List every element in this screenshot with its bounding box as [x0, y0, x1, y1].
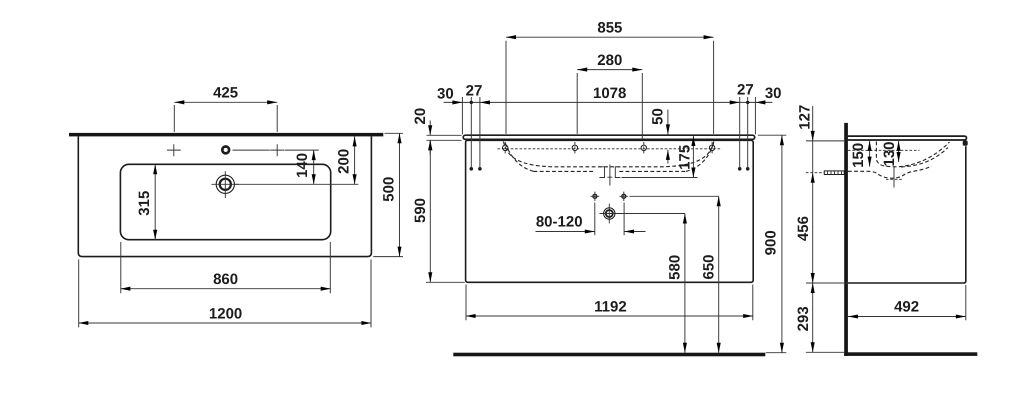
svg-text:30: 30 — [437, 86, 454, 103]
dim 492 — [848, 285, 966, 320]
basin top slab — [463, 135, 755, 139]
siphon centerline — [607, 165, 612, 186]
svg-text:500: 500 — [381, 177, 398, 202]
hidden shell bottom — [534, 170, 687, 172]
svg-text:1200: 1200 — [209, 305, 242, 322]
hidden rim line — [848, 149, 920, 151]
dim 20 — [427, 121, 462, 155]
dim 50 — [667, 110, 669, 164]
svg-text:1192: 1192 — [594, 298, 627, 315]
svg-text:456: 456 — [795, 216, 812, 241]
wall — [844, 123, 848, 356]
wall bar (rear edge) — [69, 133, 383, 137]
hidden shell bottom side — [848, 166, 932, 178]
svg-text:20: 20 — [412, 108, 429, 125]
drain centerline — [234, 183, 358, 185]
floor — [844, 352, 977, 356]
svg-text:27: 27 — [466, 83, 483, 100]
hidden bowl profile — [504, 142, 714, 167]
svg-text:140: 140 — [294, 153, 311, 178]
dim 425 — [174, 102, 277, 132]
svg-text:293: 293 — [795, 306, 812, 331]
svg-text:280: 280 — [597, 52, 622, 69]
wall fixing bolt — [824, 171, 844, 175]
dim 650 — [718, 196, 720, 352]
svg-text:50: 50 — [650, 108, 667, 125]
dim 590 — [426, 140, 465, 282]
cabinet side — [848, 146, 966, 283]
faucet centerline — [233, 149, 319, 151]
svg-text:590: 590 — [412, 198, 429, 223]
screw holes dashed line — [498, 148, 723, 150]
screw 1 — [503, 142, 508, 154]
basin front lip — [963, 140, 968, 145]
faucet hole — [222, 147, 229, 154]
hidden bowl profile side — [876, 142, 949, 167]
dim 200 — [354, 136, 356, 184]
siphon bracket right — [615, 167, 620, 178]
dim 855 — [506, 37, 714, 134]
dim 80-120 — [536, 203, 646, 236]
basin top slab side — [845, 136, 966, 140]
svg-text:175: 175 — [677, 145, 694, 170]
cross mark left — [167, 144, 181, 156]
drain — [216, 175, 234, 193]
basin bowl — [120, 164, 330, 239]
svg-text:315: 315 — [136, 191, 153, 216]
dim 500 — [373, 133, 403, 256]
cabinet body — [466, 140, 754, 282]
svg-text:80-120: 80-120 — [536, 214, 583, 231]
screw 3 — [641, 142, 646, 154]
hidden bowl outer curve — [901, 148, 948, 167]
svg-text:30: 30 — [765, 85, 782, 102]
svg-text:860: 860 — [213, 271, 238, 288]
dim 280 — [577, 70, 642, 140]
cabinet fixing dots — [470, 167, 474, 171]
drawer hole right — [620, 192, 629, 201]
dim 140 — [313, 150, 315, 184]
svg-text:650: 650 — [700, 254, 717, 279]
svg-text:127: 127 — [797, 105, 814, 130]
screw 2 — [572, 142, 577, 154]
dim 1200 — [78, 260, 371, 328]
dim 130 — [898, 141, 900, 162]
overflow ref line — [622, 177, 698, 179]
siphon bracket left — [599, 167, 604, 178]
dim 1192 — [466, 285, 754, 321]
dim 150 — [869, 141, 871, 167]
ext lines right view — [806, 141, 848, 352]
dim 580 — [684, 214, 686, 353]
drawer hole left — [591, 192, 600, 201]
dim 175 — [692, 136, 694, 178]
drain knockout — [604, 208, 615, 219]
dim chain line 127/456/293 — [812, 106, 814, 352]
bolt axis dashed — [806, 172, 824, 174]
svg-text:200: 200 — [335, 149, 352, 174]
ref line to 580 — [600, 213, 685, 215]
dim 900 — [758, 135, 787, 353]
basin body outline — [78, 136, 371, 256]
screw 4 — [709, 142, 714, 154]
dim 315 — [154, 164, 156, 239]
drain outlet mark — [893, 167, 895, 188]
svg-text:150: 150 — [850, 143, 867, 168]
svg-text:900: 900 — [763, 230, 780, 255]
svg-text:855: 855 — [597, 20, 622, 37]
svg-text:580: 580 — [667, 255, 684, 280]
dim 860 — [120, 242, 330, 293]
svg-text:492: 492 — [894, 299, 919, 316]
svg-text:425: 425 — [213, 85, 238, 102]
dim row 1078 / 30 / 27 — [444, 101, 773, 103]
svg-text:130: 130 — [881, 141, 898, 166]
floor line — [453, 353, 765, 357]
cross mark right — [270, 144, 284, 156]
hidden shell sides — [506, 144, 714, 172]
svg-text:1078: 1078 — [593, 85, 626, 102]
svg-text:27: 27 — [737, 81, 754, 98]
ref line to 650 — [630, 195, 719, 197]
drain crosshair — [211, 171, 239, 198]
